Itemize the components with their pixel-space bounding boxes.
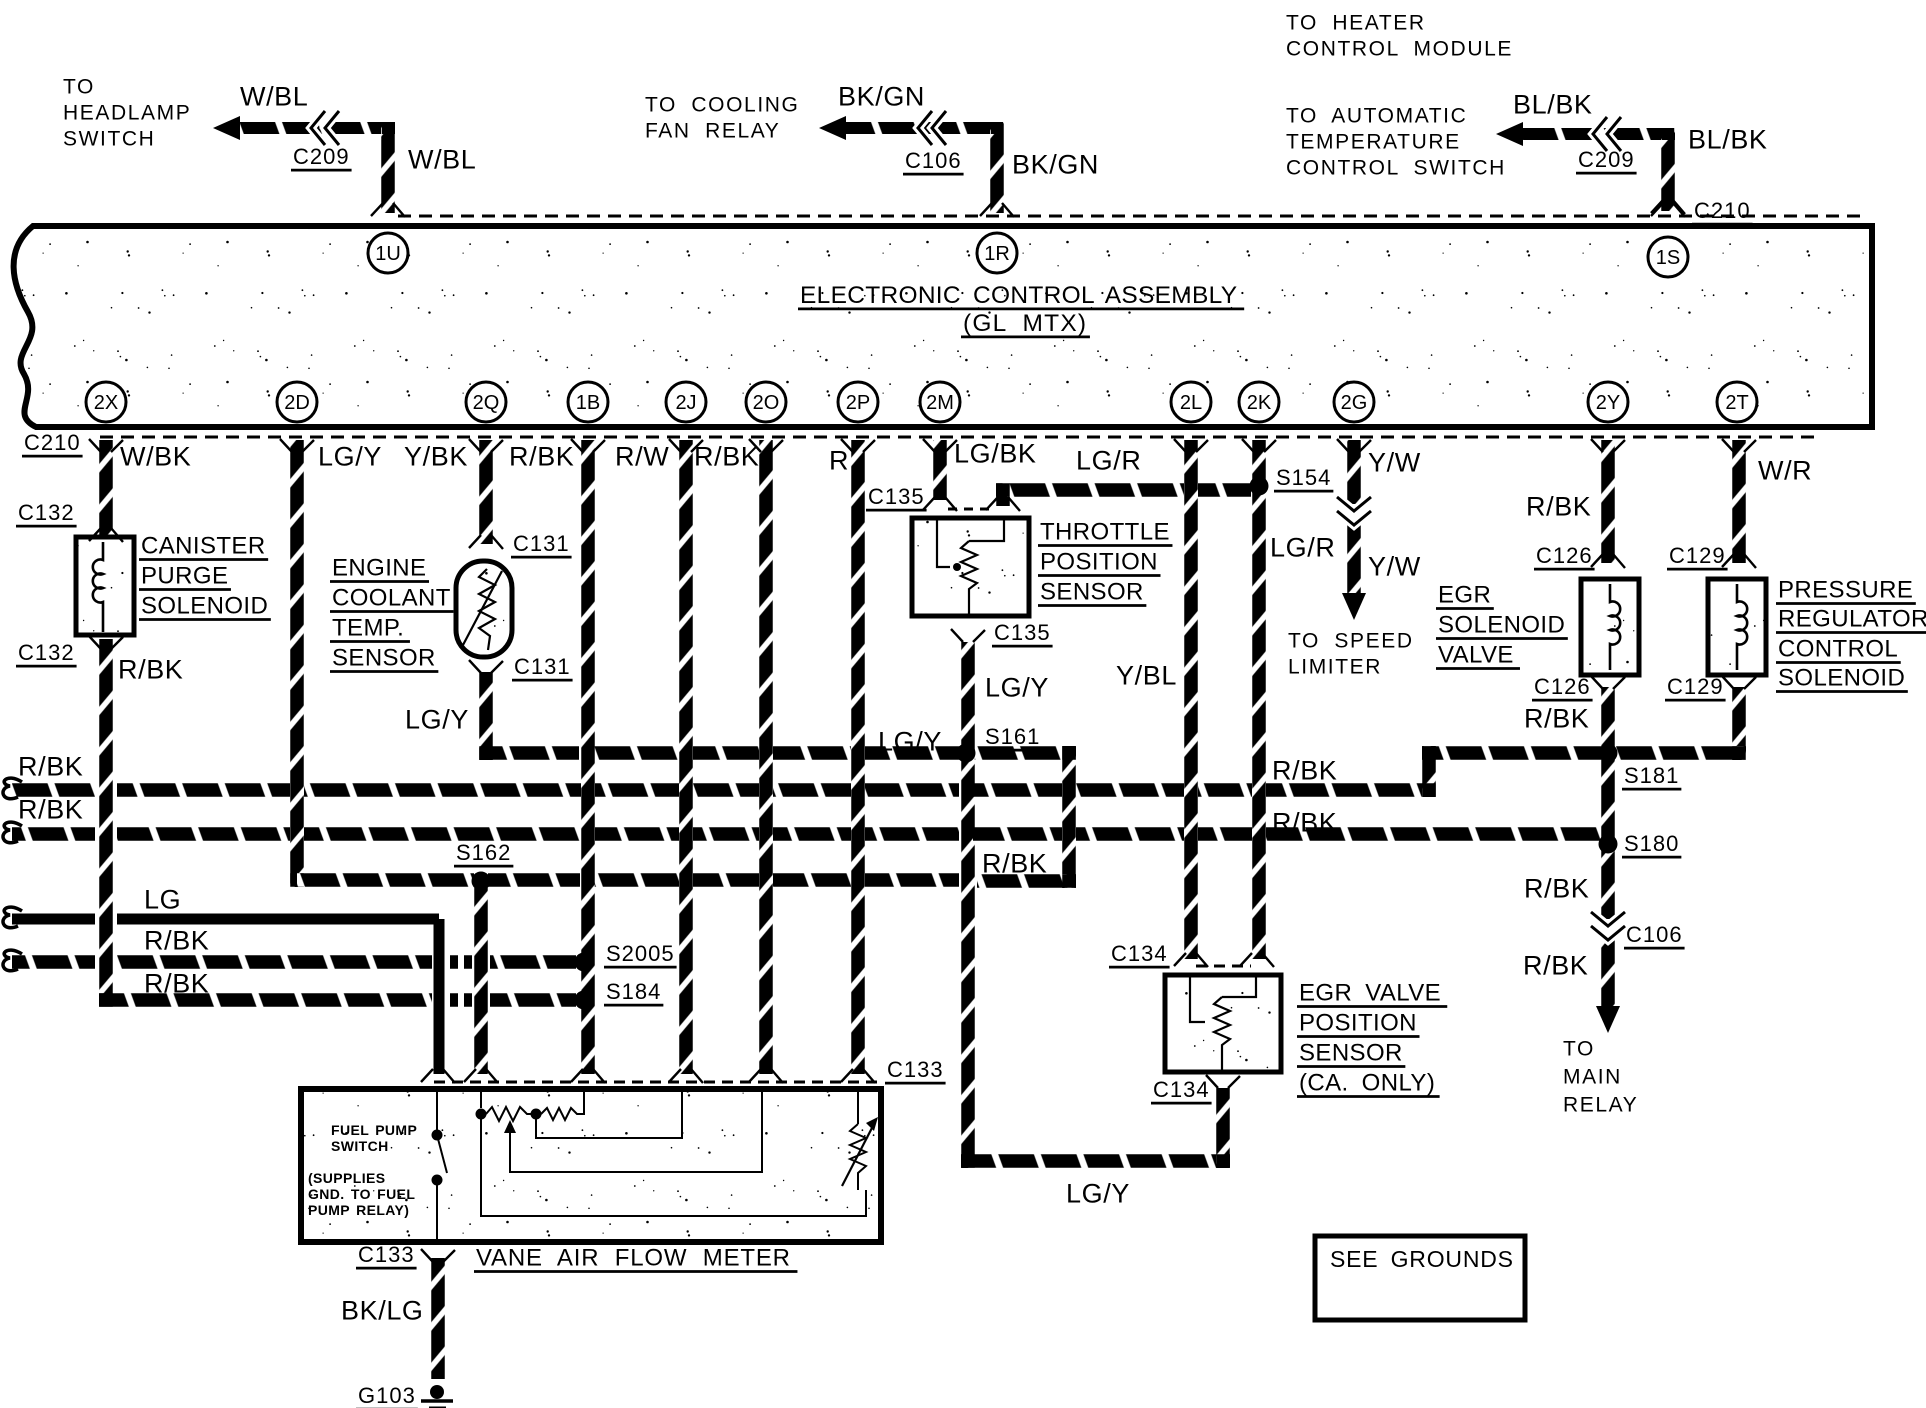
svg-text:BL/BK: BL/BK [1513, 90, 1593, 120]
svg-text:BL/BK: BL/BK [1688, 125, 1768, 155]
svg-text:S162: S162 [456, 840, 511, 865]
svg-text:FUEL PUMP: FUEL PUMP [331, 1122, 417, 1138]
svg-text:R/BK: R/BK [1526, 492, 1591, 522]
svg-text:2G: 2G [1341, 392, 1368, 414]
svg-text:TEMPERATURE: TEMPERATURE [1286, 130, 1461, 153]
svg-text:HEADLAMP: HEADLAMP [63, 101, 191, 124]
svg-text:TO AUTOMATIC: TO AUTOMATIC [1286, 104, 1467, 127]
svg-text:R/BK: R/BK [144, 926, 209, 956]
svg-text:R/W: R/W [615, 442, 669, 472]
svg-text:C106: C106 [905, 148, 962, 173]
svg-text:(GL MTX): (GL MTX) [963, 310, 1087, 337]
svg-text:ENGINE: ENGINE [332, 555, 426, 582]
svg-text:BK/GN: BK/GN [838, 82, 925, 112]
svg-text:LG/R: LG/R [1270, 533, 1335, 563]
svg-text:C133: C133 [358, 1242, 415, 1267]
svg-text:(CA. ONLY): (CA. ONLY) [1299, 1070, 1435, 1097]
svg-text:2T: 2T [1725, 392, 1748, 414]
svg-text:VANE AIR FLOW METER: VANE AIR FLOW METER [476, 1245, 791, 1272]
svg-text:C209: C209 [1578, 147, 1635, 172]
svg-text:LG/Y: LG/Y [405, 705, 469, 735]
svg-text:PRESSURE: PRESSURE [1778, 577, 1913, 604]
svg-text:C106: C106 [1626, 922, 1683, 947]
svg-text:TEMP.: TEMP. [332, 615, 404, 642]
svg-text:1R: 1R [984, 243, 1010, 265]
svg-text:BK/LG: BK/LG [341, 1296, 424, 1326]
svg-text:C210: C210 [24, 430, 81, 455]
svg-text:2P: 2P [846, 392, 870, 414]
svg-text:EGR VALVE: EGR VALVE [1299, 980, 1441, 1007]
svg-text:C129: C129 [1669, 543, 1726, 568]
svg-text:R/BK: R/BK [18, 752, 83, 782]
svg-text:TO HEATER: TO HEATER [1286, 11, 1426, 34]
svg-text:COOLANT: COOLANT [332, 585, 451, 612]
svg-text:2M: 2M [926, 392, 954, 414]
svg-text:ELECTRONIC CONTROL ASSEMBLY: ELECTRONIC CONTROL ASSEMBLY [800, 282, 1237, 309]
svg-text:Y/W: Y/W [1368, 448, 1421, 478]
svg-text:POSITION: POSITION [1299, 1010, 1417, 1037]
svg-text:2Y: 2Y [1596, 392, 1620, 414]
svg-text:C134: C134 [1111, 941, 1168, 966]
svg-text:LIMITER: LIMITER [1288, 655, 1382, 678]
svg-text:SENSOR: SENSOR [1299, 1040, 1403, 1067]
svg-text:2X: 2X [94, 392, 118, 414]
svg-text:PURGE: PURGE [141, 563, 228, 590]
svg-text:S184: S184 [606, 979, 661, 1004]
svg-text:C135: C135 [868, 484, 925, 509]
svg-text:LG/Y: LG/Y [878, 727, 942, 757]
svg-text:C133: C133 [887, 1057, 944, 1082]
svg-text:SWITCH: SWITCH [63, 127, 155, 150]
svg-text:R/BK: R/BK [982, 849, 1047, 879]
svg-text:1S: 1S [1656, 247, 1680, 269]
svg-text:PUMP RELAY): PUMP RELAY) [308, 1202, 409, 1218]
svg-text:C135: C135 [994, 620, 1051, 645]
svg-text:R/BK: R/BK [144, 969, 209, 999]
svg-text:SOLENOID: SOLENOID [1438, 612, 1565, 639]
svg-text:S180: S180 [1624, 831, 1679, 856]
svg-text:Y/W: Y/W [1368, 552, 1421, 582]
svg-text:R/BK: R/BK [18, 795, 83, 825]
svg-text:TO COOLING: TO COOLING [645, 93, 799, 116]
svg-text:R/BK: R/BK [1272, 756, 1337, 786]
svg-text:VALVE: VALVE [1438, 642, 1514, 669]
svg-text:TO: TO [1563, 1037, 1595, 1060]
svg-text:C209: C209 [293, 144, 350, 169]
svg-text:MAIN: MAIN [1563, 1065, 1622, 1088]
svg-text:LG/BK: LG/BK [954, 439, 1037, 469]
svg-text:RELAY: RELAY [1563, 1093, 1638, 1116]
svg-text:(SUPPLIES: (SUPPLIES [308, 1170, 386, 1186]
svg-text:GND. TO FUEL: GND. TO FUEL [308, 1186, 415, 1202]
svg-text:SOLENOID: SOLENOID [141, 593, 268, 620]
svg-text:THROTTLE: THROTTLE [1040, 519, 1170, 546]
svg-text:CONTROL: CONTROL [1778, 636, 1898, 663]
svg-text:LG/Y: LG/Y [985, 673, 1049, 703]
svg-text:W/BL: W/BL [240, 82, 308, 112]
svg-text:S161: S161 [985, 724, 1040, 749]
svg-text:LG/Y: LG/Y [318, 442, 382, 472]
svg-text:SWITCH: SWITCH [331, 1138, 389, 1154]
svg-text:2D: 2D [284, 392, 310, 414]
svg-text:SENSOR: SENSOR [332, 645, 436, 672]
svg-text:C210: C210 [1694, 198, 1751, 223]
svg-text:2J: 2J [675, 392, 696, 414]
svg-text:Y/BK: Y/BK [404, 442, 468, 472]
svg-text:1B: 1B [576, 392, 600, 414]
svg-text:LG/Y: LG/Y [1066, 1179, 1130, 1209]
svg-text:2K: 2K [1247, 392, 1272, 414]
svg-text:2O: 2O [753, 392, 780, 414]
svg-text:TO SPEED: TO SPEED [1288, 629, 1414, 652]
svg-text:S154: S154 [1276, 465, 1331, 490]
svg-text:LG/R: LG/R [1076, 446, 1141, 476]
svg-text:R/BK: R/BK [1272, 808, 1337, 838]
svg-text:CANISTER: CANISTER [141, 533, 266, 560]
svg-text:R/BK: R/BK [509, 442, 574, 472]
svg-text:EGR: EGR [1438, 582, 1491, 609]
svg-text:W/BK: W/BK [120, 442, 191, 472]
svg-text:FAN RELAY: FAN RELAY [645, 119, 780, 142]
svg-text:BK/GN: BK/GN [1012, 150, 1099, 180]
svg-text:POSITION: POSITION [1040, 549, 1158, 576]
svg-text:SEE GROUNDS: SEE GROUNDS [1330, 1246, 1514, 1272]
svg-text:2Q: 2Q [473, 392, 500, 414]
svg-text:S181: S181 [1624, 763, 1679, 788]
svg-text:SOLENOID: SOLENOID [1778, 665, 1905, 692]
svg-text:W/BL: W/BL [408, 145, 476, 175]
svg-text:1U: 1U [375, 243, 401, 265]
svg-text:2L: 2L [1180, 392, 1202, 414]
svg-text:C131: C131 [513, 531, 570, 556]
svg-text:TO: TO [63, 75, 95, 98]
svg-text:LG: LG [144, 885, 181, 915]
svg-text:REGULATOR: REGULATOR [1778, 606, 1926, 633]
svg-text:CONTROL SWITCH: CONTROL SWITCH [1286, 156, 1506, 179]
svg-text:R/BK: R/BK [118, 655, 183, 685]
svg-text:Y/BL: Y/BL [1116, 661, 1177, 691]
svg-text:C131: C131 [514, 654, 571, 679]
svg-text:CONTROL MODULE: CONTROL MODULE [1286, 37, 1513, 60]
svg-text:R: R [829, 446, 849, 476]
svg-text:R/BK: R/BK [1524, 874, 1589, 904]
svg-text:S2005: S2005 [606, 941, 675, 966]
svg-text:SENSOR: SENSOR [1040, 579, 1144, 606]
svg-text:R/BK: R/BK [694, 442, 759, 472]
svg-text:R/BK: R/BK [1523, 951, 1588, 981]
svg-text:C129: C129 [1667, 674, 1724, 699]
svg-text:G103: G103 [358, 1383, 416, 1408]
svg-text:C134: C134 [1153, 1077, 1210, 1102]
svg-text:C126: C126 [1534, 674, 1591, 699]
svg-text:C126: C126 [1536, 543, 1593, 568]
svg-text:W/R: W/R [1758, 456, 1812, 486]
svg-text:C132: C132 [18, 500, 75, 525]
svg-text:R/BK: R/BK [1524, 704, 1589, 734]
svg-text:C132: C132 [18, 640, 75, 665]
